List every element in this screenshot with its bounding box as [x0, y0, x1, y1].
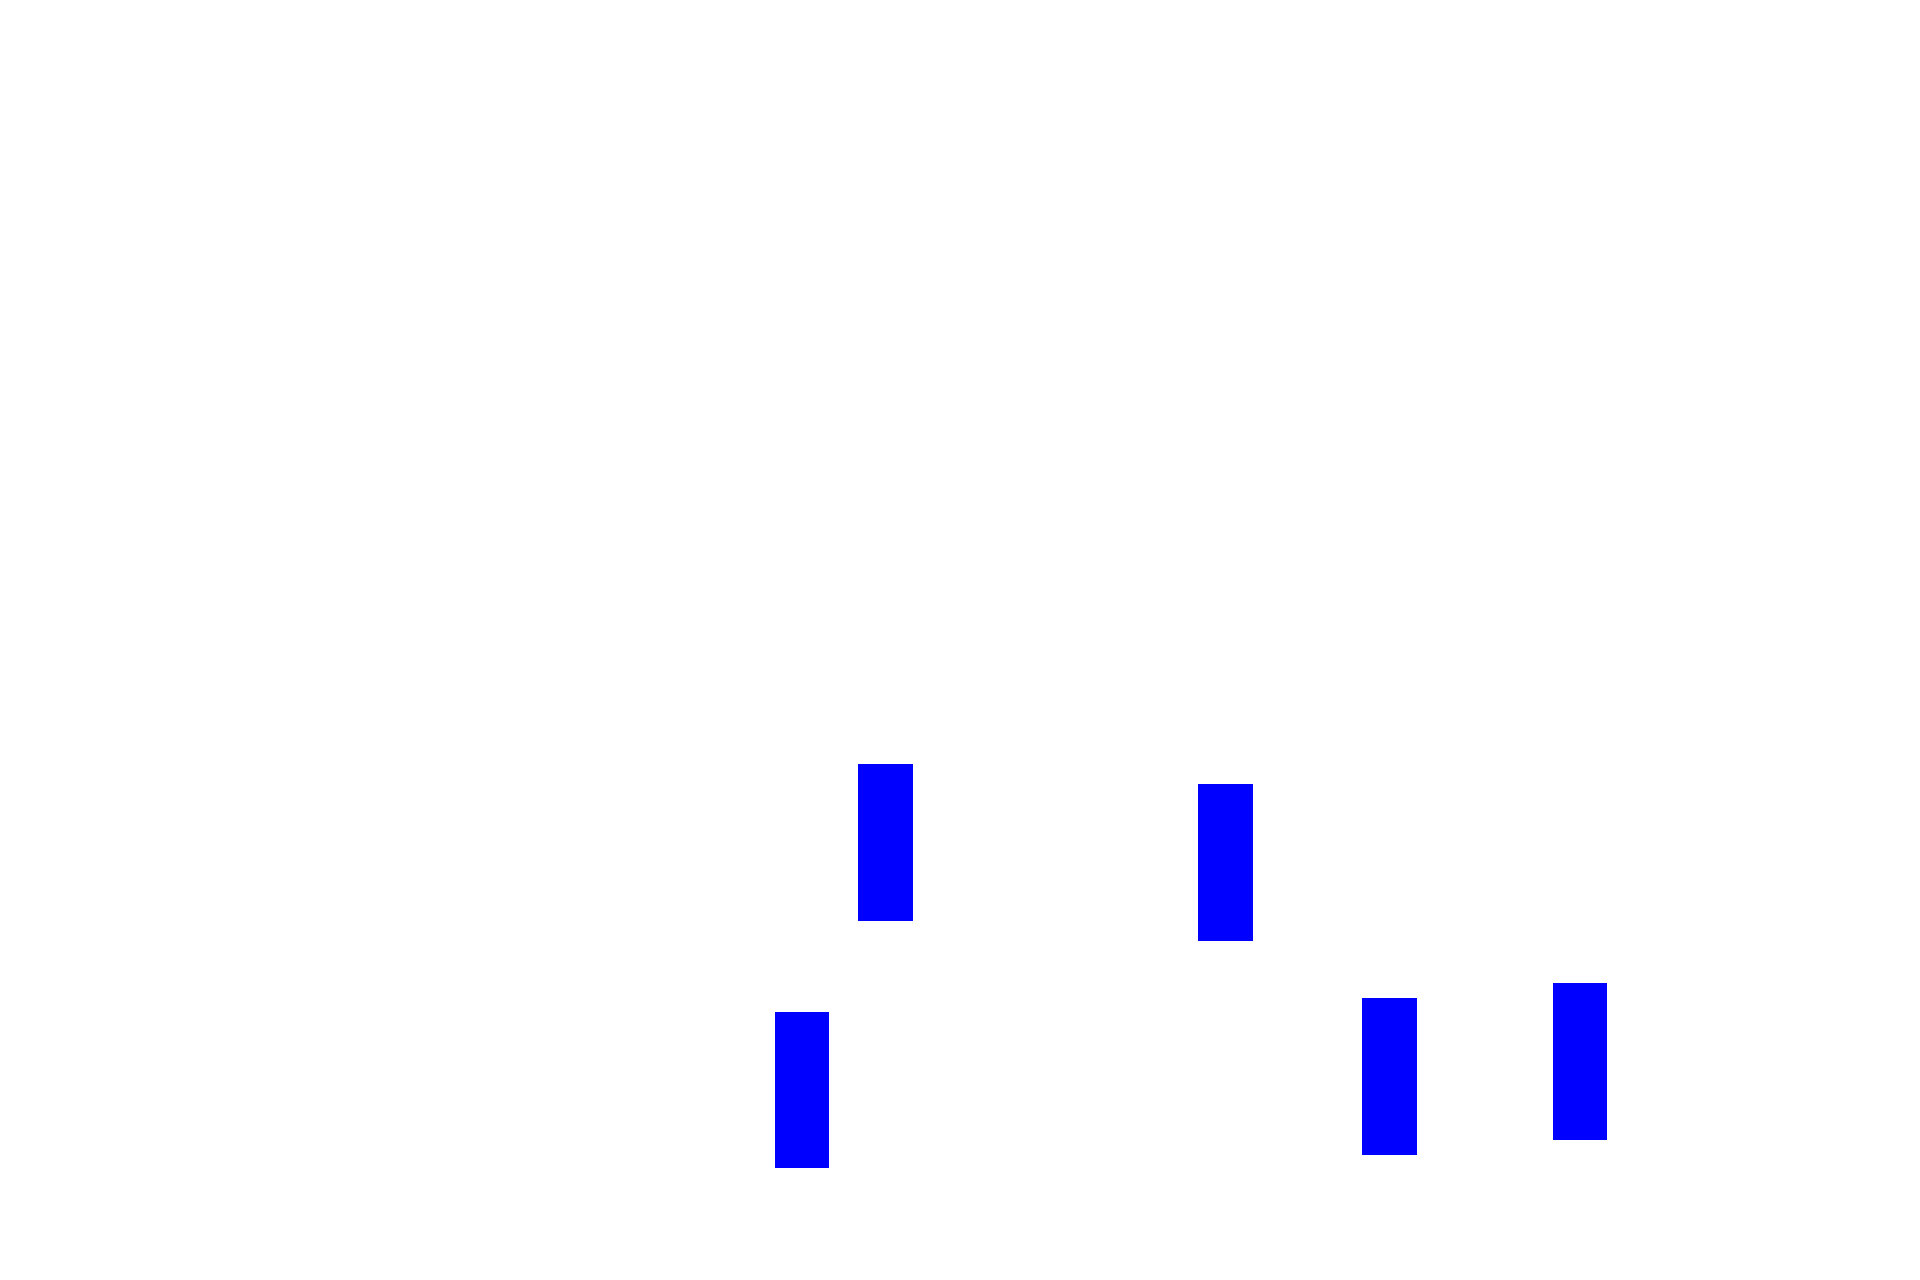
bar 2 — [1198, 784, 1253, 941]
bar 3 — [775, 1012, 829, 1168]
bar 4 — [1362, 998, 1417, 1155]
bar 1 — [858, 764, 913, 921]
bar 5 — [1553, 983, 1607, 1140]
